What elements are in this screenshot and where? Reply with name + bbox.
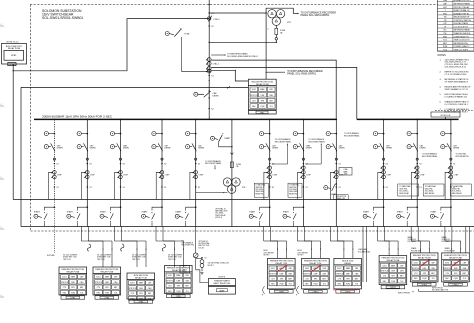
meter circle upper bbox=[186, 132, 190, 136]
node panel label box bbox=[304, 290, 328, 293]
wire feeder bay at 383.6 bbox=[383, 119, 385, 121]
svg-text:PQM: PQM bbox=[391, 281, 395, 283]
node open circle bbox=[383, 158, 385, 160]
node arrow to disturbance recorder bbox=[298, 13, 299, 14]
svg-text:RELAY PLNB: RELAY PLNB bbox=[8, 47, 21, 50]
node chevron on bay232 bbox=[231, 153, 234, 155]
svg-text:2: 2 bbox=[267, 28, 268, 30]
svg-text:LINK: LINK bbox=[344, 173, 347, 175]
meter circle lower bbox=[110, 145, 114, 149]
svg-text:CONTROL SWITCH: CONTROL SWITCH bbox=[454, 20, 472, 22]
node K mark below ct bbox=[195, 186, 196, 187]
meter circle upper bbox=[407, 132, 411, 136]
svg-text:SR001 MED: SR001 MED bbox=[289, 191, 298, 193]
meter circle lower bbox=[186, 145, 190, 149]
wire to SBEF box bbox=[196, 270, 209, 283]
wire CT loop down bbox=[445, 172, 449, 199]
wire CT loop down bbox=[378, 172, 382, 199]
svg-text:MET: MET bbox=[269, 100, 273, 102]
relay U1 MICOM protection relay bbox=[248, 79, 276, 110]
wire CT loop down bbox=[82, 172, 86, 199]
relay CPB12 protection box bbox=[379, 256, 407, 285]
relay CPB9 protection box bbox=[268, 258, 296, 289]
switch START bay337 bbox=[324, 186, 328, 190]
svg-text:CBF: CBF bbox=[80, 277, 83, 279]
node K mark below ct bbox=[161, 186, 162, 187]
svg-text:TRIP CCT SUPV: TRIP CCT SUPV bbox=[454, 49, 469, 51]
breaker CBT bbox=[447, 143, 451, 151]
wire feeder bay at 162.0 bbox=[161, 119, 163, 121]
node panel label box bbox=[61, 296, 85, 299]
svg-text:CPB10: CPB10 bbox=[313, 291, 319, 293]
breaker CBM bbox=[300, 143, 304, 151]
node trip coil hook bbox=[162, 244, 165, 251]
svg-text:MET: MET bbox=[80, 287, 84, 289]
wire pair down to relay bbox=[296, 227, 298, 242]
node K2 bbox=[269, 163, 270, 164]
svg-text:DIGITAL TRANS: DIGITAL TRANS bbox=[454, 22, 469, 25]
svg-text:CPB3: CPB3 bbox=[104, 297, 109, 299]
node red markup cross bbox=[311, 265, 321, 272]
node K2 bbox=[87, 163, 88, 164]
svg-text:DMF: DMF bbox=[391, 271, 395, 273]
node open circle bbox=[450, 158, 452, 160]
svg-text:DRWN: DRWN bbox=[339, 148, 345, 150]
svg-text:SYSTEM DC: SYSTEM DC bbox=[408, 239, 418, 241]
wire pair down to relay bbox=[329, 227, 331, 242]
svg-text:PQM: PQM bbox=[422, 278, 426, 280]
node bracket mark C2 bbox=[296, 286, 298, 294]
svg-text:CPB14: CPB14 bbox=[453, 284, 459, 286]
svg-text:START: START bbox=[100, 210, 107, 213]
svg-text:ZONE RELAY TR: ZONE RELAY TR bbox=[454, 35, 469, 38]
switch START control bbox=[87, 206, 89, 208]
wire feeder bay at 303.4 bbox=[303, 119, 305, 121]
svg-text:BUSBAR TRIP RL: BUSBAR TRIP RL bbox=[454, 12, 469, 15]
node ZPB02 label box bbox=[248, 111, 276, 115]
node ZPB label box bbox=[8, 63, 16, 66]
svg-text:DMF: DMF bbox=[177, 280, 181, 282]
svg-text:DRWN: DRWN bbox=[164, 148, 170, 150]
svg-text:MET: MET bbox=[431, 273, 435, 275]
wire CT loop down bbox=[411, 172, 415, 199]
svg-text:MARKUP: MARKUP bbox=[333, 289, 343, 292]
svg-text:DMF: DMF bbox=[346, 273, 350, 275]
svg-text:DRWN: DRWN bbox=[213, 95, 219, 97]
wire band bottom horizontal bbox=[21, 226, 474, 228]
node K mark below ct bbox=[336, 186, 337, 187]
svg-text:K2: K2 bbox=[90, 164, 92, 166]
wire VT down line bbox=[265, 13, 267, 79]
node arrow disturbance text mid bbox=[266, 71, 283, 73]
svg-text:MET: MET bbox=[463, 273, 467, 275]
node K mark below ct bbox=[120, 186, 121, 187]
svg-text:SBEF: SBEF bbox=[71, 277, 75, 279]
relay CPB14 protection box bbox=[442, 253, 470, 282]
svg-text:BUS 1: BUS 1 bbox=[264, 250, 269, 252]
svg-text:METERING PANEL: METERING PANEL bbox=[454, 2, 471, 5]
node margin marks bbox=[0, 25, 4, 27]
svg-text:MCCB/ISO AND VTS: MCCB/ISO AND VTS bbox=[432, 289, 449, 292]
svg-text:LCL BLOCK RLY: LCL BLOCK RLY bbox=[454, 26, 469, 28]
wire frame left dashed bbox=[30, 5, 32, 232]
svg-text:OF HIGH INTEGRATED R: OF HIGH INTEGRATED R bbox=[445, 80, 469, 83]
svg-text:SHUNT REV. TCM: SHUNT REV. TCM bbox=[63, 257, 77, 259]
wire notes bottom dashed bbox=[435, 110, 474, 112]
svg-text:ZPB2: ZPB2 bbox=[260, 112, 265, 114]
breaker CBT bbox=[413, 143, 417, 151]
svg-text:STR/TCS: STR/TCS bbox=[443, 268, 451, 270]
node trip coil hook bbox=[121, 244, 124, 251]
svg-text:DMF: DMF bbox=[71, 282, 75, 284]
svg-text:GIL 50/1 CURRENT: GIL 50/1 CURRENT bbox=[63, 254, 77, 256]
current-transformer CTBF bbox=[86, 171, 90, 175]
svg-text:50/51 RETRIP: 50/51 RETRIP bbox=[264, 252, 274, 254]
svg-text:TRIP COIL: TRIP COIL bbox=[97, 259, 105, 261]
node destination box bay337 bbox=[334, 195, 349, 200]
svg-text:STR/TCS: STR/TCS bbox=[250, 95, 258, 97]
svg-text:DRWN: DRWN bbox=[306, 148, 312, 150]
svg-text:4: 4 bbox=[1, 104, 2, 106]
svg-text:SOL-SW01-: SOL-SW01- bbox=[289, 189, 298, 191]
svg-text:4: 4 bbox=[1, 295, 2, 297]
wire bay 232 bus VT bbox=[231, 119, 233, 121]
wire feeder bay at 54.4 bbox=[54, 119, 56, 121]
node K2 bbox=[417, 163, 418, 164]
node K mark below ct bbox=[303, 186, 304, 187]
node legend table bbox=[438, 0, 474, 51]
svg-text:SOL-SW01-LB01: SOL-SW01-LB01 bbox=[358, 251, 370, 253]
switch START control bbox=[450, 206, 452, 208]
svg-text:STR/TCS: STR/TCS bbox=[61, 282, 69, 284]
breaker CBT bbox=[380, 143, 384, 151]
svg-text:SBEF: SBEF bbox=[105, 277, 109, 279]
svg-text:TM: TM bbox=[444, 17, 447, 19]
svg-text:PSD: PSD bbox=[443, 13, 448, 15]
node junction at frame bbox=[209, 4, 210, 5]
svg-text:DRWN: DRWN bbox=[453, 148, 459, 150]
node load bank label box bay337 bbox=[339, 168, 352, 176]
meter circle upper bbox=[441, 132, 445, 136]
node K2 bbox=[383, 163, 384, 164]
svg-text:CTBL-2: CTBL-2 bbox=[213, 19, 220, 21]
svg-text:K1: K1 bbox=[198, 187, 200, 189]
current-transformer CTBF bbox=[382, 166, 386, 170]
svg-text:TRIP COIL: TRIP COIL bbox=[168, 259, 176, 261]
node K mark below ct bbox=[269, 186, 270, 187]
svg-text:K1: K1 bbox=[339, 187, 341, 189]
svg-text:SOL-SW01-PNL01-B 11: SOL-SW01-PNL01-B 11 bbox=[445, 66, 467, 68]
wire feeder bay at 120.5 bbox=[120, 119, 122, 121]
svg-text:STR/TCS: STR/TCS bbox=[381, 271, 389, 273]
svg-text:09/05/2022: 09/05/2022 bbox=[347, 290, 358, 292]
svg-text:START: START bbox=[331, 193, 338, 196]
wire future dashed tail bbox=[53, 200, 55, 254]
wire ZPB line2 horizontal bbox=[21, 86, 248, 88]
node open circle bbox=[195, 158, 197, 160]
svg-text:NOTE 10 B: NOTE 10 B bbox=[441, 115, 451, 117]
node panel label box bbox=[95, 296, 119, 299]
svg-text:STR/TCS: STR/TCS bbox=[336, 273, 344, 275]
svg-text:DMF: DMF bbox=[105, 282, 109, 284]
svg-text:NOTE 3 & 12: NOTE 3 & 12 bbox=[7, 41, 20, 43]
svg-text:CPB4: CPB4 bbox=[138, 301, 143, 303]
meter circle upper bbox=[110, 132, 114, 136]
svg-text:K1: K1 bbox=[123, 187, 125, 189]
svg-text:K1: K1 bbox=[306, 187, 308, 189]
meter circle upper bbox=[77, 132, 81, 136]
svg-text:MED RELAY: MED RELAY bbox=[425, 192, 436, 195]
node red markup cross bbox=[420, 260, 430, 267]
node panel label box bbox=[167, 294, 191, 297]
svg-text:50/51: 50/51 bbox=[96, 277, 100, 279]
svg-text:DRWN: DRWN bbox=[57, 148, 63, 150]
wire enclosure dashed bottom bbox=[31, 230, 474, 232]
svg-text:STR/TCS: STR/TCS bbox=[412, 268, 420, 270]
meter circle lower bbox=[44, 145, 48, 149]
svg-text:50/51: 50/51 bbox=[305, 268, 309, 270]
svg-text:CBF: CBF bbox=[355, 268, 358, 270]
wire CT loop down bbox=[190, 172, 194, 199]
svg-text:MET: MET bbox=[400, 276, 404, 278]
meter circle lower bbox=[293, 145, 297, 149]
node destination text right bays bbox=[398, 184, 419, 196]
node panel label box bbox=[270, 290, 294, 293]
current-transformer CTBF bbox=[302, 166, 306, 170]
node K2 bbox=[336, 163, 337, 164]
svg-text:CPB2: CPB2 bbox=[70, 297, 75, 299]
svg-text:TNL: TNL bbox=[443, 33, 447, 35]
svg-text:ZPB1: ZPB1 bbox=[11, 55, 17, 57]
svg-text:INPUT FROM: INPUT FROM bbox=[398, 293, 410, 295]
svg-text:SYSTEM DC: SYSTEM DC bbox=[442, 239, 452, 241]
svg-text:K1: K1 bbox=[272, 187, 274, 189]
svg-text:PQM: PQM bbox=[280, 284, 284, 286]
relay ZPB01 bus zone protection bbox=[2, 44, 27, 65]
svg-text:START: START bbox=[283, 210, 290, 213]
svg-text:PQM: PQM bbox=[346, 284, 350, 286]
svg-text:RECORDER PNL: RECORDER PNL bbox=[182, 245, 195, 247]
wire right edge pair down bbox=[465, 227, 467, 253]
wire pair down to relay bbox=[263, 227, 265, 242]
svg-text:K2: K2 bbox=[123, 164, 125, 166]
switch PLNB aux bbox=[165, 32, 169, 36]
svg-text:2000A BUSBAR 11kV 3PH 50Hz 50k: 2000A BUSBAR 11kV 3PH 50Hz 50kA FOR 3 SE… bbox=[42, 115, 113, 119]
node panel label box bbox=[444, 283, 468, 286]
svg-text:CBF: CBF bbox=[114, 277, 117, 279]
ground bay196 aux bbox=[200, 271, 203, 273]
svg-text:PLNB: PLNB bbox=[185, 33, 191, 35]
svg-text:CBF: CBF bbox=[288, 268, 291, 270]
switch START control bbox=[161, 206, 163, 208]
wire VT bypass loop bbox=[266, 8, 293, 13]
svg-text:GIL 50/1 CURRENT: GIL 50/1 CURRENT bbox=[97, 254, 111, 256]
svg-text:50/51: 50/51 bbox=[252, 89, 256, 91]
wire CT loop down bbox=[298, 172, 302, 199]
wire to VT cluster bbox=[209, 12, 266, 14]
current-transformer CTBF bbox=[53, 171, 57, 175]
breaker CBT bbox=[266, 143, 270, 151]
wire pair down to relay bbox=[80, 227, 82, 242]
wire aux switch to CT stack bbox=[182, 37, 212, 71]
svg-text:START: START bbox=[224, 137, 231, 140]
svg-text:DRWN: DRWN bbox=[90, 148, 96, 150]
svg-text:4: 4 bbox=[1, 177, 2, 179]
svg-text:4: 4 bbox=[1, 227, 2, 229]
svg-text:DRWN: DRWN bbox=[272, 148, 278, 150]
svg-text:START: START bbox=[397, 210, 404, 213]
svg-text:START: START bbox=[175, 210, 182, 213]
svg-text:GIL 5W/3 PNNL: GIL 5W/3 PNNL bbox=[198, 243, 209, 245]
wire bay196 below band bbox=[195, 227, 197, 254]
relay CPB5 protection box bbox=[165, 266, 193, 294]
svg-text:PQM: PQM bbox=[443, 46, 448, 48]
svg-text:SWITCHGEAR LV CCT 11: SWITCHGEAR LV CCT 11 bbox=[445, 88, 470, 91]
svg-text:PQM: PQM bbox=[314, 284, 318, 286]
meter circle upper bbox=[260, 132, 264, 136]
transformer VTB voltage transformer bbox=[268, 10, 276, 18]
current-transformer CTBF bbox=[415, 166, 419, 170]
wire busbar section 1 bbox=[34, 118, 336, 120]
svg-text:DMF: DMF bbox=[423, 268, 427, 270]
svg-text:STR/TCS: STR/TCS bbox=[166, 280, 174, 282]
svg-text:LOCATED IN PANEL 6 A: LOCATED IN PANEL 6 A bbox=[445, 95, 468, 98]
svg-text:SBEF: SBEF bbox=[219, 290, 225, 292]
svg-text:CPB5: CPB5 bbox=[176, 296, 181, 298]
node metering panel text bbox=[225, 54, 226, 55]
svg-text:SR001 MED: SR001 MED bbox=[256, 191, 265, 193]
svg-text:BUS 2: BUS 2 bbox=[298, 250, 303, 252]
svg-text:RECORDER PANEL: RECORDER PANEL bbox=[422, 155, 438, 158]
svg-text:METERING PANEL: METERING PANEL bbox=[454, 29, 471, 32]
node earth circle under fuse bbox=[275, 38, 277, 40]
switch START bay232 bbox=[211, 136, 215, 140]
wire disturbance line A bbox=[211, 60, 336, 119]
wire ZPB tee up and over to incomer bbox=[13, 19, 209, 71]
svg-text:MET: MET bbox=[355, 279, 359, 281]
node slash mark on zpb line bbox=[227, 86, 230, 88]
svg-text:CPB12: CPB12 bbox=[390, 287, 396, 289]
svg-text:SHUNT REV. TCM: SHUNT REV. TCM bbox=[132, 257, 146, 259]
meter circle upper bbox=[293, 132, 297, 136]
wire pair down to relay bbox=[410, 227, 412, 242]
meter circle lower bbox=[407, 145, 411, 149]
svg-text:STR/TCS: STR/TCS bbox=[303, 273, 311, 275]
svg-text:FAULT RELAY TBD: FAULT RELAY TBD bbox=[214, 282, 231, 285]
svg-text:TRIP COIL: TRIP COIL bbox=[132, 259, 140, 261]
svg-text:CBF: CBF bbox=[463, 263, 466, 265]
svg-text:PQM: PQM bbox=[261, 106, 265, 108]
node K2 bbox=[303, 163, 304, 164]
svg-text:50/51: 50/51 bbox=[168, 275, 172, 277]
svg-text:50/51: 50/51 bbox=[445, 263, 449, 265]
svg-text:J: J bbox=[445, 10, 446, 12]
svg-text:MED RELAY: MED RELAY bbox=[452, 192, 463, 195]
svg-text:RECORDER PANEL: RECORDER PANEL bbox=[205, 162, 222, 165]
wire bus2 riser bbox=[211, 67, 357, 119]
wire pair down to relay bbox=[444, 227, 446, 242]
node open circle bbox=[161, 158, 163, 160]
svg-text:TRIP COIL: TRIP COIL bbox=[63, 259, 71, 261]
switch START control bbox=[303, 206, 305, 208]
svg-text:CPB13: CPB13 bbox=[421, 284, 427, 286]
wire band top horizontal bbox=[13, 199, 474, 201]
svg-text:START: START bbox=[249, 210, 256, 213]
node K mark below ct bbox=[383, 186, 384, 187]
svg-text:DBN TOR TRIP: DBN TOR TRIP bbox=[198, 245, 209, 247]
svg-text:DMF: DMF bbox=[314, 273, 318, 275]
node panel label box bbox=[412, 283, 436, 286]
node open circle bbox=[86, 158, 88, 160]
node panel label box bbox=[336, 290, 360, 293]
svg-text:RECORDER PANEL: RECORDER PANEL bbox=[308, 140, 325, 143]
svg-text:NOTE 8: NOTE 8 bbox=[219, 277, 226, 279]
node K mark below ct bbox=[417, 186, 418, 187]
svg-text:OPTIONS TO: OPTIONS TO bbox=[198, 241, 209, 243]
svg-text:DMF: DMF bbox=[280, 273, 284, 275]
node open circle bbox=[416, 158, 418, 160]
svg-text:SBEF: SBEF bbox=[260, 89, 264, 91]
svg-text:50/51: 50/51 bbox=[62, 277, 66, 279]
wire ZPB line2 vertical bbox=[20, 87, 22, 226]
svg-text:MET: MET bbox=[322, 279, 326, 281]
svg-text:NOTE 9: NOTE 9 bbox=[298, 255, 304, 257]
wire CT loop down bbox=[156, 172, 160, 199]
breaker CBB incomer switch bbox=[194, 92, 198, 96]
svg-text:DMF: DMF bbox=[139, 288, 143, 290]
relay CPB13 protection box bbox=[410, 253, 438, 282]
svg-text:CBF: CBF bbox=[148, 283, 151, 285]
node panel label box bbox=[381, 285, 405, 288]
svg-text:CBF: CBF bbox=[185, 275, 188, 277]
svg-text:SBEF: SBEF bbox=[391, 265, 395, 267]
breaker CBR bbox=[117, 143, 121, 151]
svg-text:NOTE 9: NOTE 9 bbox=[264, 255, 270, 257]
switch START control bbox=[416, 206, 418, 208]
svg-text:START: START bbox=[34, 210, 41, 213]
node red markup cross bbox=[451, 260, 461, 267]
svg-text:BUSBAR PROTECT: BUSBAR PROTECT bbox=[454, 0, 472, 2]
switch START control bbox=[383, 206, 385, 208]
svg-text:POWER QUALITY: POWER QUALITY bbox=[454, 45, 470, 48]
svg-text:SOL-SW01-: SOL-SW01- bbox=[215, 213, 224, 215]
svg-text:K2: K2 bbox=[211, 109, 213, 111]
svg-text:50/51: 50/51 bbox=[414, 263, 418, 265]
current-transformer CTBF bbox=[119, 171, 123, 175]
svg-text:SBEF: SBEF bbox=[176, 275, 180, 277]
node label box bay196 bbox=[180, 266, 190, 274]
svg-text:(NOTE 4): (NOTE 4) bbox=[215, 217, 222, 219]
svg-text:DRWN: DRWN bbox=[420, 148, 426, 150]
wire pair down to relay bbox=[377, 227, 379, 242]
node open circle bbox=[269, 158, 271, 160]
wire frame top dashed bbox=[30, 4, 474, 6]
current-transformer CTBF bbox=[335, 171, 339, 175]
svg-text:SBEF: SBEF bbox=[346, 268, 350, 270]
current-transformer bay196 aux bbox=[200, 260, 204, 264]
svg-text:STR/TCS: STR/TCS bbox=[95, 282, 103, 284]
svg-text:FUTURE USE: FUTURE USE bbox=[411, 250, 421, 252]
svg-text:50/51: 50/51 bbox=[130, 283, 134, 285]
wire pair down to relay bbox=[155, 227, 157, 242]
switch START control bbox=[269, 206, 271, 208]
node red markup cross bbox=[277, 265, 287, 272]
node K mark below ct bbox=[54, 186, 55, 187]
svg-text:RECORDER PNL: RECORDER PNL bbox=[456, 156, 469, 158]
svg-text:START: START bbox=[430, 210, 437, 213]
svg-text:K2: K2 bbox=[453, 164, 455, 166]
node bus2 note box bbox=[431, 112, 460, 117]
